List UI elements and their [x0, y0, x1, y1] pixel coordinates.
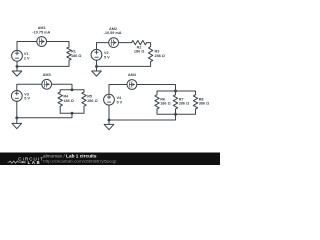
svg-text:186 Ω: 186 Ω: [134, 49, 144, 53]
wire: [175, 109, 177, 114]
resistor R1: [67, 47, 71, 60]
wire: [17, 60, 69, 66]
resistor R6: [155, 95, 159, 109]
wire: [52, 84, 72, 90]
resistor R3: [148, 47, 152, 62]
svg-text:AM3: AM3: [43, 73, 51, 77]
voltage source V1: [12, 50, 23, 61]
node n4b (junction dot): [174, 113, 177, 116]
wire: [109, 85, 127, 95]
svg-text:V1: V1: [24, 52, 29, 56]
wire: [96, 60, 98, 66]
svg-text:-10.59 mA: -10.59 mA: [104, 31, 122, 35]
wire: [157, 91, 196, 95]
wire: [17, 113, 72, 118]
svg-text:5 V: 5 V: [104, 56, 110, 60]
wire: [108, 105, 110, 120]
svg-text:AM4: AM4: [128, 73, 137, 77]
CircuitLab logo trace (resistor zigzag): [8, 161, 22, 163]
node n4a (junction dot): [174, 90, 177, 93]
wire: [109, 114, 176, 120]
node n1 (junction dot): [16, 65, 19, 68]
svg-text:186 Ω: 186 Ω: [63, 99, 73, 103]
svg-text:286 Ω: 286 Ω: [179, 102, 189, 106]
ground GND3: [12, 118, 22, 129]
wire: [16, 61, 18, 66]
svg-text:AM1: AM1: [38, 26, 46, 30]
node n3c (junction dot): [15, 116, 18, 119]
node n3b (junction dot): [71, 112, 74, 115]
resistor R4: [58, 92, 62, 106]
wire: [16, 101, 18, 118]
svg-text:LAB: LAB: [28, 160, 40, 165]
svg-text:http://circuitlab.com/c6bh867y: http://circuitlab.com/c6bh867y5pcqp: [43, 158, 117, 163]
svg-text:2 V: 2 V: [24, 57, 30, 61]
svg-text:186 Ω: 186 Ω: [71, 54, 81, 58]
voltage source V3: [11, 91, 22, 102]
node n4c (junction dot): [108, 119, 111, 122]
ground GND1: [12, 66, 22, 76]
CircuitLab logo diode: [22, 161, 24, 163]
svg-text:386 Ω: 386 Ω: [199, 102, 209, 106]
wire: [60, 106, 84, 113]
svg-text:186 Ω: 186 Ω: [160, 102, 170, 106]
ammeter AM4: [127, 80, 137, 90]
wire: [97, 62, 151, 67]
svg-text:-10.75 mA: -10.75 mA: [32, 31, 50, 35]
wire: [17, 84, 42, 90]
node n3a (junction dot): [71, 88, 74, 91]
wire: [60, 90, 84, 92]
svg-text:286 Ω: 286 Ω: [87, 99, 97, 103]
voltage source V4: [104, 94, 115, 105]
svg-text:286 Ω: 286 Ω: [155, 54, 165, 58]
ammeter AM1: [37, 37, 47, 47]
voltage source V2: [91, 49, 102, 60]
svg-text:V3: V3: [24, 92, 29, 96]
wire: [157, 109, 196, 114]
banner background: [0, 153, 220, 166]
wire: [47, 42, 69, 48]
ammeter AM3: [42, 79, 52, 89]
ammeter AM2: [109, 38, 119, 48]
svg-text:5 V: 5 V: [24, 97, 30, 101]
ground GND2: [92, 66, 102, 76]
wire: [175, 91, 177, 95]
node n2 (junction dot): [95, 65, 98, 68]
wire: [137, 85, 176, 92]
ground GND4: [104, 120, 114, 130]
svg-text:V2: V2: [104, 51, 109, 55]
resistor R8: [193, 95, 197, 109]
resistor R5: [82, 92, 86, 106]
resistor R7: [173, 95, 177, 109]
wire: [147, 43, 151, 47]
wire: [17, 42, 37, 51]
resistor R2: [132, 40, 147, 44]
wire: [119, 42, 132, 44]
svg-text:5 V: 5 V: [117, 101, 123, 105]
wire: [97, 43, 109, 50]
